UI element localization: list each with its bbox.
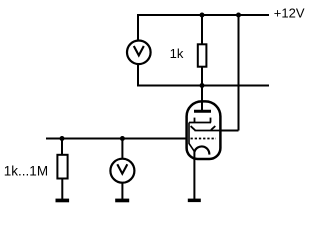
- wire V1 bottom lead: [137, 64, 139, 87]
- tube U1 control grid g1 (dashed): [191, 138, 217, 140]
- voltmeter V1: [127, 41, 151, 65]
- tube U1 envelope: [187, 101, 221, 159]
- wire anode lead into tube: [201, 86, 203, 111]
- wire R2 top lead: [61, 139, 63, 156]
- wire V2 top lead: [121, 139, 123, 160]
- wire screen-grid vertical from rail: [238, 14, 240, 131]
- wire anode node horizontal: [138, 85, 269, 87]
- wire V1 top lead: [137, 14, 139, 41]
- tube U1 suppressor grid g3: [189, 118, 211, 123]
- wire V2 bottom lead: [121, 182, 123, 199]
- junction dot grid/R2: [60, 136, 65, 141]
- wire R2 bottom lead: [61, 178, 63, 199]
- wire top supply rail: [138, 14, 269, 16]
- junction dot rail/R1: [200, 13, 205, 18]
- resistor R2: [57, 155, 67, 179]
- svg-text:1k...1M: 1k...1M: [4, 163, 48, 178]
- ground below V2: [115, 199, 129, 203]
- wire control-grid horizontal: [46, 138, 186, 140]
- wire cathode lead: [193, 152, 195, 200]
- junction dot anode node: [200, 83, 205, 88]
- wire screen-grid horizontal to tube: [220, 130, 239, 132]
- wire R1 top lead: [201, 15, 203, 44]
- junction dot grid/V2: [120, 136, 125, 141]
- tube U1 g3-to-cathode link: [189, 123, 194, 152]
- tube U1 cathode: [194, 146, 209, 154]
- tube U1 screen grid g2: [191, 126, 220, 131]
- svg-text:1k: 1k: [170, 46, 184, 61]
- junction dot rail/screen wire: [236, 13, 241, 18]
- resistor R1: [198, 44, 207, 66]
- voltmeter V2: [110, 159, 134, 183]
- tube U1 anode plate: [194, 110, 211, 113]
- ground below R2: [56, 199, 70, 203]
- wire R1 bottom lead: [201, 67, 203, 86]
- svg-text:+12V: +12V: [274, 6, 305, 21]
- ground below cathode: [188, 199, 201, 203]
